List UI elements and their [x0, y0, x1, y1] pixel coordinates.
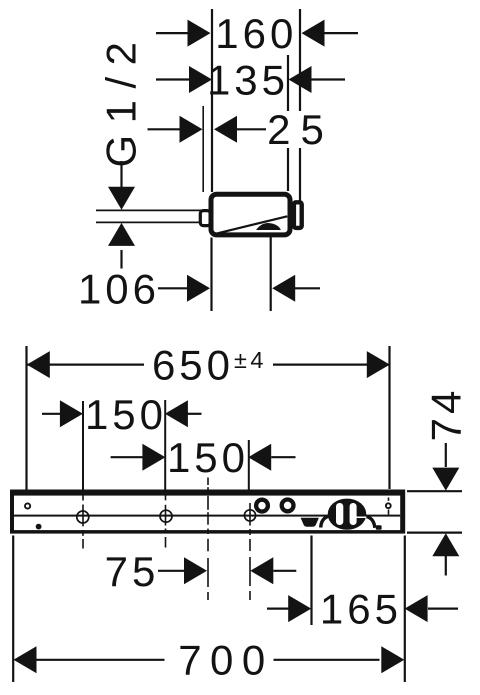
square dot right: [376, 525, 382, 530]
dim 75 lines: [158, 570, 185, 572]
ext 150b right x=248.8: [248, 440, 250, 497]
line below valve right x=270.7: [270, 230, 272, 311]
hose outlet trapezoid: [301, 518, 319, 527]
arrow 650 right: [367, 351, 390, 378]
bar outer black: [10, 490, 405, 534]
dimension 106 leader: [158, 287, 188, 289]
knob left arc: [321, 517, 328, 528]
arrow 700 right: [381, 646, 404, 673]
svg-text:650: 650: [152, 342, 234, 389]
extension line D x=203.2: [202, 106, 204, 192]
knob slot 1: [336, 503, 343, 525]
valve lever bump: [256, 223, 281, 230]
arrow 135 left: [189, 66, 212, 93]
arrow 165 left: [288, 595, 311, 622]
dashed centerline x=208: [207, 478, 209, 601]
arrow 165 right: [405, 595, 428, 622]
arrow 150b left: [142, 444, 165, 471]
ring knob small 2: [282, 500, 294, 512]
ext 650 right x=389.5: [388, 346, 390, 489]
dim 74 ext top: [407, 490, 462, 492]
ext right x=404.8: [404, 536, 406, 683]
pipe line top: [96, 209, 204, 211]
knob slit: [357, 517, 367, 519]
dim 700 lines: [37, 659, 165, 661]
arrow 150a right: [165, 400, 188, 427]
dim 165 lines: [267, 607, 289, 609]
arrow G12 up: [108, 223, 135, 246]
pipe line bottom: [96, 221, 204, 223]
line below valve left x=211.5: [210, 238, 212, 312]
ext 700 left x=13.2: [12, 536, 14, 683]
arrow 150b right: [248, 444, 271, 471]
screw hole ring right: [386, 503, 391, 508]
dimension 135: [156, 78, 190, 80]
arrow 75 right: [250, 557, 273, 584]
svg-text:106: 106: [78, 265, 160, 312]
valve left tab: [200, 211, 210, 226]
valve body: [211, 194, 290, 235]
ext 150a/b x=165.2: [164, 400, 166, 490]
dim 150b lines: [111, 456, 143, 458]
dot left: [36, 524, 42, 530]
bar inner white: [14, 496, 400, 530]
knob slot 2: [350, 503, 357, 525]
svg-text:G1/2: G1/2: [98, 30, 145, 167]
svg-text:±4: ±4: [234, 347, 267, 373]
ext x=311.5: [310, 536, 312, 626]
ring knob small 1: [256, 500, 268, 512]
ext 150a left x=83: [82, 401, 84, 490]
arrow 135 right: [289, 66, 312, 93]
crosshair 2: [160, 510, 172, 522]
dimension 160: [156, 32, 189, 34]
dim 74 vertical: [445, 443, 447, 467]
dim 74 ext bottom: [407, 531, 462, 533]
dim 650 lines: [27, 364, 144, 366]
svg-text:150: 150: [167, 434, 249, 481]
arrow 160 right: [302, 20, 325, 47]
dashed centerline x=165.5: [165, 495, 167, 548]
valve right tab: [294, 202, 302, 228]
arrow G12 down: [108, 187, 135, 210]
dashed centerline x=388.5: [388, 498, 390, 515]
crosshair 3: [244, 510, 255, 521]
arrow 160 left: [188, 20, 211, 47]
svg-text:74: 74: [423, 387, 470, 442]
dim 150a lines: [42, 413, 60, 415]
arrow 650 left: [27, 351, 50, 378]
arrow 74 up: [432, 533, 459, 556]
arrow 74 down: [432, 468, 459, 491]
G1/2 dimension line: [120, 161, 122, 188]
svg-text:150: 150: [85, 391, 167, 438]
svg-text:135: 135: [207, 57, 289, 104]
extension line A x=212: [211, 9, 213, 192]
arrow 25 left: [180, 116, 203, 143]
arrow 75 left: [184, 557, 207, 584]
valve diagonal: [218, 216, 288, 233]
arrow 106 left: [187, 275, 210, 302]
crosshair 1: [77, 511, 89, 523]
text 25 mask: [266, 111, 325, 148]
bar inner line: [14, 515, 400, 517]
arrow 106 right: [272, 275, 295, 302]
svg-text:75: 75: [105, 548, 160, 595]
knob right arc: [367, 517, 375, 528]
arrow 150a left: [60, 400, 83, 427]
thermostat knob: [328, 499, 367, 530]
ext 650 left x=26.5: [25, 346, 27, 490]
extension line C x=288: [287, 55, 289, 191]
arrow 25 right: [214, 116, 237, 143]
arrow 700 left: [14, 646, 37, 673]
svg-text:700: 700: [178, 637, 274, 684]
svg-text:160: 160: [215, 10, 297, 57]
screw hole ring left: [25, 503, 30, 508]
dashed centerline x=250: [249, 503, 251, 600]
extension line B x=300: [299, 9, 301, 201]
svg-text:25: 25: [267, 106, 334, 153]
svg-text:165: 165: [320, 585, 402, 632]
dimension 25: [148, 128, 182, 130]
dashed centerline x=83: [82, 495, 84, 549]
